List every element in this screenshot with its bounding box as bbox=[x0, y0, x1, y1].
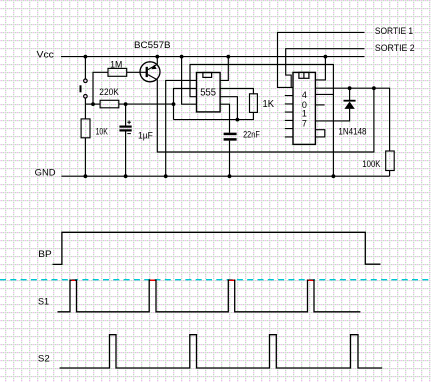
wire 10K to GND bbox=[84, 138, 86, 176]
svg-text:S1: S1 bbox=[38, 297, 49, 307]
wire 555 pin3 to 4017 bbox=[190, 65, 333, 177]
red dash marks on S1 pulse tops bbox=[72, 279, 314, 281]
svg-text:1: 1 bbox=[302, 109, 307, 119]
wire emitter to Vcc bbox=[156, 57, 158, 65]
label 4017 vertical bbox=[302, 90, 307, 129]
wire 4017 bracket stubs bbox=[315, 130, 324, 137]
wire 555 pin6 down bbox=[220, 97, 237, 120]
wire GND rail bbox=[61, 175, 389, 177]
svg-text:100K: 100K bbox=[362, 159, 380, 169]
wire 555 pin5 to 22nF bbox=[220, 104, 229, 133]
wire 555 pin8 to Vcc bbox=[220, 57, 228, 81]
wire SORTIE 1 bbox=[278, 32, 365, 87]
waveform S2 bbox=[60, 335, 383, 368]
wire Vcc rail bbox=[61, 56, 365, 58]
svg-text:22nF: 22nF bbox=[243, 129, 260, 139]
transistor Q1 BC557B bbox=[140, 62, 160, 82]
wire 4017 stub short bbox=[315, 104, 324, 106]
svg-text:1M: 1M bbox=[110, 59, 122, 69]
svg-text:SORTIE 1: SORTIE 1 bbox=[375, 26, 413, 36]
svg-text:10K: 10K bbox=[96, 127, 108, 137]
wire Vcc to 555 pin4 bbox=[182, 57, 197, 105]
wire collector down and right bbox=[157, 79, 374, 152]
pushbutton BP bbox=[80, 79, 88, 98]
wire 4017 to diode anode bbox=[315, 109, 349, 121]
wire 1M to base bbox=[127, 71, 146, 73]
wire discharge row bbox=[174, 112, 254, 119]
resistor 1K bbox=[250, 94, 258, 113]
resistor 100K bbox=[386, 151, 395, 171]
svg-text:1N4148: 1N4148 bbox=[338, 126, 366, 136]
wire 4017 pin16 to Vcc bbox=[315, 57, 325, 80]
wire 555 pin1 to GND bbox=[166, 80, 197, 176]
wire cap 1uF top bbox=[125, 104, 127, 126]
waveform BP bbox=[53, 232, 381, 264]
waveform S1 bbox=[58, 280, 361, 312]
svg-text:S2: S2 bbox=[38, 353, 50, 363]
svg-text:555: 555 bbox=[200, 86, 216, 98]
wire 555 pin2 node A bbox=[174, 89, 197, 120]
svg-text:1K: 1K bbox=[263, 99, 275, 110]
svg-text:4: 4 bbox=[302, 90, 307, 100]
wire node to 220K bbox=[85, 103, 100, 105]
dashed reference line bbox=[0, 279, 431, 281]
svg-text:SORTIE 2: SORTIE 2 bbox=[375, 43, 415, 53]
4017 left pin stubs bbox=[285, 96, 293, 137]
junction dots bbox=[84, 55, 376, 178]
svg-text:GND: GND bbox=[35, 167, 57, 177]
IC U1 555 bbox=[197, 73, 221, 112]
svg-text:BC557B: BC557B bbox=[134, 40, 171, 50]
svg-text:1µF: 1µF bbox=[138, 131, 153, 141]
wire 220K to node A bbox=[119, 103, 174, 105]
resistor 10K bbox=[81, 119, 90, 138]
wire button to node bbox=[84, 98, 86, 104]
IC U2 4017 bbox=[293, 72, 315, 144]
wire Vcc to button bbox=[84, 57, 86, 79]
svg-text:220K: 220K bbox=[99, 87, 119, 97]
wire 100K to GND bbox=[389, 171, 391, 177]
resistor 220K bbox=[100, 100, 119, 108]
wire cap 1uF to GND bbox=[125, 131, 127, 176]
wire 555 pin7 to 1K bbox=[220, 89, 253, 94]
wire SORTIE 2 bbox=[286, 49, 365, 88]
wire node to 10K bbox=[84, 104, 86, 119]
diode D1 1N4148 bbox=[344, 88, 356, 109]
wire node up to 1M bbox=[93, 72, 108, 104]
wire 4017 output row to 100K bbox=[315, 88, 389, 151]
svg-text:7: 7 bbox=[302, 119, 307, 129]
wire 4017 stub to reset line bbox=[315, 93, 333, 95]
svg-text:Vcc: Vcc bbox=[37, 49, 55, 59]
resistor 1M bbox=[108, 68, 127, 76]
capacitor C1 1uF bbox=[119, 121, 131, 134]
svg-text:BP: BP bbox=[38, 249, 51, 259]
capacitor C2 22nF bbox=[224, 134, 237, 140]
wire 22nF to GND bbox=[229, 141, 231, 177]
